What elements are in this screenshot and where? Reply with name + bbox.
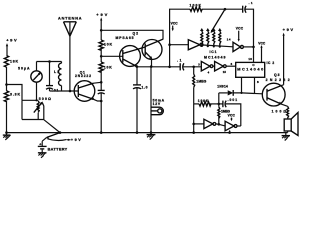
capacitor 1.0 (133, 67, 148, 133)
svg-text:VCC: VCC (236, 27, 244, 31)
svg-text:Q3: Q3 (274, 73, 280, 77)
node output-feedback (168, 66, 171, 69)
node 1MEG lower bottom (218, 123, 221, 126)
svg-text:.001: .001 (228, 98, 238, 102)
node selector 4 (219, 46, 221, 48)
node inverter D input (192, 66, 195, 69)
svg-text:.1: .1 (177, 59, 182, 63)
resistor 18K (4, 56, 18, 68)
node switch pivot bus (59, 131, 62, 134)
switch lever battery (45, 133, 66, 141)
svg-text:3.3K: 3.3K (10, 93, 20, 97)
svg-text:+9V: +9V (283, 27, 294, 32)
wire divider mid (100, 48, 102, 63)
node bus cap1.0 (136, 131, 139, 134)
selector resistor 2 (206, 28, 210, 46)
meter M1 50uA (18, 62, 42, 101)
node selector 1 (201, 45, 203, 47)
inverter G IC1 (225, 121, 241, 131)
svg-text:+9V: +9V (71, 138, 81, 142)
resistor 1MEG lower (218, 104, 231, 124)
svg-text:12V: 12V (153, 102, 161, 106)
svg-text:10K: 10K (104, 65, 112, 69)
inverter F IC1 (204, 119, 216, 128)
VCC terminal 4 (228, 114, 236, 122)
wire Q3 emitter (281, 104, 288, 107)
battery (38, 138, 68, 153)
+9V terminal divider (96, 12, 107, 40)
node lower astable R junction (218, 103, 221, 106)
resistor 100 ohm (272, 106, 289, 119)
ground mid (147, 133, 156, 140)
potentiometer 500 ohm (22, 97, 51, 120)
svg-text:MPSA65: MPSA65 (116, 36, 134, 40)
wire tank top line (37, 61, 62, 63)
node switch pivot (224, 8, 227, 11)
svg-text:VCC: VCC (228, 114, 236, 118)
wire branch to pot (7, 85, 23, 101)
capacitor .1 top feedback (243, 1, 254, 47)
wire F to G (216, 124, 225, 126)
wire top line (202, 8, 243, 10)
wire divider lower (100, 70, 102, 91)
node output-cap1 (136, 65, 139, 68)
wire lamp drop (150, 67, 152, 133)
svg-text:1N914: 1N914 (217, 85, 228, 89)
wire G ground stub (229, 130, 231, 132)
svg-text:15: 15 (223, 70, 227, 74)
inductor L1 (54, 62, 62, 92)
transistor Q1 2N2222 (74, 70, 95, 101)
node tank cap top (48, 60, 51, 63)
selector resistor 3 (212, 28, 216, 46)
svg-text:+9V: +9V (96, 12, 107, 17)
resistor 3.3K (4, 91, 20, 102)
IC2 box MC14040 (236, 61, 275, 77)
svg-text:MC14040: MC14040 (237, 68, 263, 72)
resistor 1MEG vertical (193, 67, 207, 104)
node divider top (100, 29, 103, 32)
capacitor .001 (223, 98, 241, 126)
capacitor .01 tank (46, 62, 58, 93)
node rail-branch (5, 83, 8, 86)
node selector 3 (213, 45, 215, 47)
selector resistor 4 (218, 28, 222, 46)
wire Q1 collector (94, 81, 102, 84)
svg-text:.1: .1 (249, 1, 253, 5)
VCC terminal 3 IC2 (258, 41, 266, 62)
node divider mid (100, 55, 103, 58)
diode D1 1N914 (217, 85, 262, 104)
resistor 100K lower (194, 99, 223, 106)
node selector 2 (207, 45, 209, 47)
wire Q2 output line (137, 66, 181, 68)
svg-text:+9V: +9V (6, 38, 17, 43)
wire tank bottom line (50, 90, 79, 92)
svg-text:VCC: VCC (171, 22, 179, 26)
transistor Q2 MPSA65 darlington (116, 32, 163, 67)
svg-text:ANTENNA: ANTENNA (58, 17, 82, 21)
ground battery (38, 153, 47, 158)
node bus lamp (150, 131, 153, 134)
wire left rail (6, 67, 8, 91)
selector resistor 1 (200, 28, 204, 45)
svg-text:L1: L1 (54, 70, 59, 74)
svg-text:BATTERY: BATTERY (48, 147, 68, 151)
ground left (3, 131, 11, 140)
IC2 pin 8 stub (255, 77, 260, 93)
node bus Q1 (100, 131, 103, 134)
inverter A IC1 (188, 40, 203, 50)
wire Q2 base (101, 55, 123, 57)
wire +9V feed to Q2 (101, 30, 163, 39)
svg-text:10: 10 (248, 57, 252, 61)
wire resistor bus (203, 45, 233, 47)
svg-text:1.0: 1.0 (142, 86, 148, 90)
svg-text:14: 14 (227, 38, 231, 42)
inverter D IC1 (201, 61, 214, 74)
node Q1 collector junction (100, 81, 103, 84)
+9V terminal battery (66, 138, 81, 142)
svg-text:MC14049: MC14049 (204, 55, 226, 59)
wire inverter A input (170, 44, 189, 46)
node C output (252, 46, 255, 49)
svg-text:100K: 100K (190, 4, 202, 8)
wire lower astable left (193, 104, 195, 133)
resistor 10K upper (99, 40, 112, 50)
wire feedback vertical (170, 9, 190, 67)
svg-text:IC1: IC1 (210, 50, 217, 54)
svg-text:2N2222: 2N2222 (75, 74, 91, 78)
svg-text:IC 2: IC 2 (267, 61, 275, 65)
capacitor Q1 bypass (98, 90, 105, 132)
node G ground (228, 131, 231, 134)
svg-text:100K: 100K (198, 99, 209, 103)
wire F input (194, 123, 204, 125)
wire Q3 collector (282, 84, 284, 87)
node inverter A input (168, 43, 171, 46)
capacitor .1 coupling (177, 59, 201, 71)
VCC terminal 1 (171, 22, 179, 32)
wire pot to switch (44, 120, 60, 133)
node bus astable (192, 131, 195, 134)
svg-text:18K: 18K (10, 59, 18, 63)
ground speaker (282, 133, 290, 141)
antenna (58, 17, 82, 91)
svg-text:1MEG: 1MEG (196, 79, 206, 83)
IC2 output pin stub (240, 77, 242, 94)
wire Q1 emitter (94, 99, 102, 101)
bottom bus wire (7, 132, 288, 134)
svg-text:500Ω: 500Ω (39, 97, 51, 101)
node Q1 emitter junction (100, 100, 103, 103)
node antenna-base junction (69, 90, 72, 93)
transistor Q3 2N2222 (262, 73, 289, 106)
node F input (192, 123, 195, 126)
+9V terminal left (6, 38, 17, 56)
lamp 50mA 12V (151, 99, 165, 115)
switch arm rotary (211, 9, 225, 33)
speaker (284, 113, 298, 136)
resistor 100K top (190, 4, 203, 12)
svg-text:10K: 10K (104, 42, 112, 46)
svg-text:50µA: 50µA (18, 67, 30, 71)
inverter E IC1 (215, 61, 236, 74)
svg-text:VCC: VCC (258, 41, 266, 45)
+9V terminal right (283, 27, 294, 85)
inverter C IC1 (233, 42, 254, 51)
wire rail to bus (6, 101, 8, 133)
VCC terminal 2 (236, 27, 244, 42)
resistor 10K lower (99, 62, 112, 72)
node output-lamp (150, 65, 153, 68)
wire IC2 clock (253, 47, 255, 63)
